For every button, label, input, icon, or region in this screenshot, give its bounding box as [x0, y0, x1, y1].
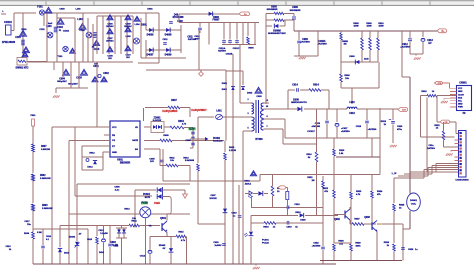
svg-text:COIL: COIL [411, 203, 417, 205]
svg-text:250VAC: 250VAC [124, 25, 132, 28]
svg-text:SDA: SDA [458, 96, 463, 99]
svg-text:D930: D930 [293, 99, 299, 102]
svg-text:P9: P9 [463, 113, 467, 115]
svg-text:C914: C914 [292, 84, 298, 87]
svg-text:4V: 4V [79, 233, 82, 236]
svg-text:R101: R101 [21, 29, 27, 31]
svg-text:0.5W/1W: 0.5W/1W [41, 149, 51, 151]
svg-text:ZD601: ZD601 [69, 237, 76, 239]
svg-text:C911C: C911C [233, 48, 240, 50]
svg-text:1PWL08030: 1PWL08030 [2, 41, 16, 44]
svg-text:1/2W: 1/2W [353, 26, 359, 28]
svg-text:R615: R615 [178, 232, 184, 234]
svg-text:C108: C108 [107, 55, 113, 57]
svg-text:R918: R918 [421, 91, 427, 93]
svg-text:+RATING: +RATING [300, 41, 310, 44]
svg-text:10: 10 [266, 106, 269, 108]
svg-text:SNUBBER: SNUBBER [290, 10, 301, 12]
svg-text:PC601: PC601 [213, 138, 221, 140]
svg-text:C911A: C911A [219, 47, 226, 50]
svg-text:C607: C607 [210, 195, 216, 197]
svg-text:1k: 1k [295, 227, 298, 229]
svg-text:MUR860/BYV26C: MUR860/BYV26C [268, 33, 286, 35]
svg-text:2u/50V: 2u/50V [214, 245, 222, 247]
svg-text:L902: L902 [349, 102, 355, 104]
svg-text:C608: C608 [149, 159, 155, 161]
svg-text:D909: D909 [349, 56, 355, 58]
svg-text:9mH: 9mH [48, 23, 53, 25]
svg-text:D908M: D908M [273, 31, 280, 33]
svg-text:PC123: PC123 [262, 243, 269, 245]
svg-text:250VAC: 250VAC [106, 25, 114, 28]
svg-text:C919: C919 [286, 227, 292, 229]
svg-text:0.1: 0.1 [46, 239, 50, 241]
svg-text:GND: GND [458, 104, 463, 106]
svg-text:OnOff: OnOff [458, 94, 464, 96]
svg-text:CS: CS [112, 140, 116, 142]
svg-text:C618: C618 [6, 246, 12, 248]
svg-text:C620: C620 [213, 242, 219, 244]
svg-text:D903: D903 [247, 93, 253, 95]
svg-text:C918: C918 [294, 204, 300, 206]
svg-text:1k: 1k [436, 128, 439, 130]
svg-text:C107: C107 [107, 38, 113, 40]
svg-text:2kV: 2kV [108, 58, 112, 60]
svg-text:250VAC: 250VAC [106, 40, 114, 43]
svg-text:GND: GND [112, 152, 117, 154]
svg-text:D4609: D4609 [165, 54, 172, 57]
svg-text:C922: C922 [313, 243, 319, 245]
svg-text:C109: C109 [125, 23, 131, 25]
svg-text:GATE: GATE [132, 139, 138, 142]
svg-text:+RATING: +RATING [368, 128, 377, 131]
svg-text:R919: R919 [381, 121, 387, 123]
svg-text:8: 8 [266, 116, 268, 118]
svg-text:RATING: RATING [427, 147, 435, 150]
svg-text:R90B: R90B [342, 41, 348, 43]
svg-text:16V/1N: 16V/1N [209, 198, 217, 200]
svg-text:C601: C601 [93, 66, 99, 68]
svg-text:R923: R923 [356, 191, 362, 193]
svg-text:C617: C617 [24, 221, 30, 223]
svg-text:10k: 10k [132, 218, 136, 220]
svg-text:D601: D601 [147, 9, 153, 11]
svg-text:C604: C604 [59, 78, 65, 81]
svg-text:D4608: D4608 [165, 34, 172, 37]
svg-text:+RATING: +RATING [311, 125, 320, 128]
svg-text:ZD/5.1: ZD/5.1 [245, 183, 252, 185]
svg-text:2.2u/50: 2.2u/50 [100, 233, 108, 235]
svg-text:817B: 817B [145, 197, 151, 199]
svg-text:KA5Q1265RF: KA5Q1265RF [162, 110, 178, 113]
svg-text:R613: R613 [124, 209, 130, 211]
svg-text:D920: D920 [300, 220, 306, 222]
svg-text:680p/2kV: 680p/2kV [68, 84, 78, 86]
svg-text:C106: C106 [107, 23, 113, 25]
svg-text:D48: D48 [174, 14, 179, 17]
svg-text:R927: R927 [354, 219, 360, 221]
svg-text:RATING: RATING [218, 50, 226, 53]
svg-text:R608: R608 [189, 160, 195, 162]
svg-text:SW601 NTC: SW601 NTC [16, 68, 29, 70]
svg-text:PWR: PWR [458, 107, 463, 109]
svg-text:CN101: CN101 [4, 21, 12, 24]
svg-text:1k: 1k [277, 191, 280, 193]
svg-text:5: 5 [247, 128, 249, 130]
svg-text:R604: R604 [178, 120, 184, 123]
svg-text:R607: R607 [171, 100, 177, 102]
svg-text:R905: R905 [271, 7, 277, 9]
svg-text:R916: R916 [306, 154, 312, 156]
svg-text:C903: C903 [59, 9, 65, 11]
svg-text:L101: L101 [46, 26, 52, 28]
svg-text:C918: C918 [356, 126, 362, 128]
svg-text:3.3M: 3.3M [37, 232, 42, 234]
svg-text:R909: R909 [366, 23, 372, 25]
svg-text:L601: L601 [216, 111, 222, 113]
svg-text:R914: R914 [313, 84, 319, 87]
svg-text:3: 3 [247, 113, 249, 115]
svg-text:SNUBBER: SNUBBER [267, 9, 278, 11]
svg-text:R607: R607 [41, 146, 47, 148]
svg-text:R922: R922 [323, 188, 329, 190]
svg-text:2.2/1W: 2.2/1W [229, 150, 237, 152]
svg-text:R908: R908 [344, 75, 350, 77]
svg-text:C611: C611 [187, 37, 193, 39]
svg-text:C102: C102 [39, 29, 45, 31]
svg-text:1/2W: 1/2W [378, 26, 384, 28]
svg-text:1k: 1k [384, 124, 387, 126]
svg-text:R611: R611 [169, 158, 175, 160]
svg-text:HV: HV [428, 43, 432, 45]
svg-text:VCC: VCC [112, 127, 117, 129]
svg-text:R610: R610 [229, 147, 235, 149]
svg-text:MBR20100CTS: MBR20100CTS [291, 102, 307, 104]
svg-text:7: 7 [266, 126, 268, 128]
svg-text:4.7k: 4.7k [356, 193, 361, 196]
svg-text:2kV: 2kV [126, 57, 130, 59]
svg-text:C103: C103 [57, 27, 63, 29]
svg-text:C103A: C103A [63, 30, 70, 33]
svg-text:C104: C104 [79, 29, 85, 32]
svg-text:C605: C605 [185, 140, 191, 142]
svg-text:1k: 1k [273, 227, 276, 229]
svg-text:47k: 47k [324, 190, 328, 193]
svg-text:C911B: C911B [226, 54, 233, 56]
svg-text:ZD603: ZD603 [159, 245, 166, 247]
svg-text:LVDS/CN902: LVDS/CN902 [455, 180, 469, 182]
svg-text:Q903: Q903 [364, 217, 370, 219]
svg-text:feedback: feedback [213, 141, 223, 143]
svg-text:U602: U602 [110, 242, 116, 244]
svg-text:+RATING: +RATING [341, 130, 350, 133]
svg-text:GND: GND [458, 91, 463, 93]
svg-text:C110: C110 [125, 54, 131, 56]
svg-text:STB: STB [438, 83, 443, 85]
svg-text:SG: SG [135, 149, 138, 151]
svg-text:L_W: L_W [392, 173, 398, 175]
svg-text:C926: C926 [408, 249, 414, 251]
svg-text:C910A: C910A [318, 40, 325, 43]
svg-text:D601: D601 [141, 25, 147, 27]
svg-text:FR607: FR607 [213, 20, 221, 22]
svg-text:4.7k: 4.7k [181, 239, 186, 242]
svg-text:1k: 1k [432, 91, 435, 93]
svg-text:RT: RT [112, 146, 116, 148]
svg-text:1/2W: 1/2W [366, 26, 372, 28]
svg-text:R605: R605 [163, 135, 169, 137]
svg-text:R922: R922 [434, 125, 440, 127]
svg-text:D608: D608 [213, 17, 219, 19]
svg-text:5.6V/1W: 5.6V/1W [153, 120, 162, 122]
svg-text:R929: R929 [355, 243, 361, 245]
svg-text:L102: L102 [77, 19, 83, 21]
svg-text:D902: D902 [222, 89, 228, 91]
svg-text:D4606: D4606 [147, 34, 154, 37]
svg-text:1M: 1M [311, 180, 314, 182]
svg-text:C614: C614 [140, 255, 146, 258]
svg-text:1k: 1k [387, 245, 390, 247]
svg-text:5M0365R: 5M0365R [120, 162, 131, 165]
svg-text:1k: 1k [9, 249, 12, 251]
svg-text:PC601: PC601 [262, 240, 269, 242]
svg-text:FB: FB [112, 135, 115, 137]
svg-text:3.3M/0.5W: 3.3M/0.5W [40, 178, 52, 180]
svg-text:F601: F601 [31, 115, 37, 117]
svg-text:C912: C912 [402, 44, 408, 46]
svg-text:D4607: D4607 [147, 54, 154, 57]
svg-text:4.7k: 4.7k [182, 123, 187, 126]
svg-text:HV: HV [135, 127, 139, 129]
svg-text:C916: C916 [349, 113, 355, 115]
svg-text:R928: R928 [338, 241, 344, 243]
svg-text:R612: R612 [89, 153, 95, 155]
svg-text:R910: R910 [378, 23, 384, 25]
svg-text:4148: 4148 [364, 58, 369, 61]
svg-text:L102: L102 [76, 9, 82, 11]
svg-text:R908: R908 [353, 23, 359, 25]
svg-text:TR: TR [149, 226, 152, 228]
svg-text:16V: 16V [150, 161, 154, 163]
svg-text:PG/H: PG/H [154, 203, 160, 205]
svg-text:R925: R925 [399, 205, 405, 207]
svg-text:L104: L104 [135, 23, 141, 26]
svg-text:BT606: BT606 [255, 138, 263, 141]
svg-text:6V: 6V [163, 248, 166, 250]
svg-text:D612: D612 [87, 167, 93, 169]
svg-text:Q601: Q601 [160, 217, 167, 220]
svg-text:C908: C908 [292, 7, 298, 9]
svg-text:10k: 10k [170, 160, 174, 162]
svg-text:X1: X1 [59, 30, 62, 32]
svg-text:+C917: +C917 [341, 128, 348, 130]
svg-text:PC601: PC601 [143, 194, 151, 196]
svg-text:T101: T101 [58, 56, 64, 58]
svg-text:2.2u: 2.2u [115, 189, 120, 191]
svg-text:470u: 470u [397, 128, 403, 131]
svg-text:1M: 1M [343, 44, 346, 46]
svg-text:C612: C612 [98, 230, 104, 232]
svg-text:C915: C915 [315, 123, 321, 125]
svg-text:D901: D901 [222, 83, 228, 85]
svg-text:1u: 1u [233, 215, 236, 217]
svg-text:22n: 22n [27, 224, 31, 226]
svg-text:C602: C602 [103, 73, 109, 75]
svg-text:R604: R604 [24, 232, 30, 235]
svg-text:C903: C903 [256, 96, 262, 98]
svg-text:Q902: Q902 [334, 219, 340, 221]
svg-text:R616: R616 [87, 239, 93, 241]
svg-text:R926: R926 [384, 242, 390, 244]
svg-text:680p/2kV: 680p/2kV [57, 81, 67, 83]
svg-text:C606: C606 [114, 187, 120, 189]
svg-text:L: L [2, 11, 4, 13]
svg-text:47k: 47k [377, 193, 381, 196]
svg-text:D613: D613 [64, 253, 70, 255]
svg-text:1k: 1k [399, 208, 402, 210]
svg-text:R921: R921 [307, 177, 313, 179]
svg-text:C611: C611 [162, 39, 168, 41]
svg-text:820k: 820k [356, 246, 362, 248]
svg-text:R602: R602 [40, 175, 46, 177]
svg-text:R918: R918 [263, 227, 269, 229]
svg-text:F101: F101 [37, 6, 43, 9]
svg-text:CN901: CN901 [459, 82, 467, 85]
svg-text:R924: R924 [377, 190, 383, 193]
svg-text:C101: C101 [15, 37, 21, 39]
svg-text:6.2V: 6.2V [189, 128, 194, 131]
svg-text:C92x: C92x [429, 145, 435, 147]
svg-text:C616: C616 [46, 236, 52, 238]
svg-text:C909: C909 [302, 39, 308, 41]
svg-text:C619: C619 [231, 213, 237, 215]
svg-text:3.3M/0.5W: 3.3M/0.5W [42, 208, 54, 210]
svg-text:C920: C920 [397, 126, 403, 128]
svg-text:1.8k: 1.8k [339, 153, 344, 155]
svg-text:R906: R906 [248, 48, 254, 50]
svg-text:1u: 1u [415, 249, 418, 251]
svg-text:R614: R614 [131, 220, 137, 223]
svg-text:15k: 15k [345, 78, 349, 80]
svg-text:SCL: SCL [458, 101, 463, 103]
svg-text:3k: 3k [308, 157, 311, 159]
svg-text:12V: 12V [402, 110, 406, 112]
svg-text:C913: C913 [427, 40, 433, 42]
svg-text:+RATING: +RATING [312, 245, 321, 248]
svg-text:400V: 400V [194, 38, 200, 41]
svg-text:R920: R920 [339, 150, 345, 152]
svg-text:PC60: PC60 [142, 202, 149, 205]
svg-text:R919: R919 [295, 212, 301, 214]
svg-text:L103: L103 [126, 36, 132, 38]
svg-text:NTC/D608: NTC/D608 [173, 17, 185, 19]
svg-text:KA5Q0765RT: KA5Q0765RT [191, 109, 207, 112]
svg-text:VCC: VCC [458, 88, 463, 90]
svg-text:16k: 16k [339, 244, 343, 246]
svg-text:+RATING: +RATING [317, 43, 327, 46]
svg-text:+RATING: +RATING [400, 46, 410, 49]
svg-text:R603: R603 [42, 205, 48, 207]
svg-text:C/C917: C/C917 [307, 131, 315, 133]
svg-text:1: 1 [247, 99, 249, 101]
svg-text:DG901: DG901 [410, 200, 418, 202]
svg-text:D904: D904 [244, 180, 250, 183]
